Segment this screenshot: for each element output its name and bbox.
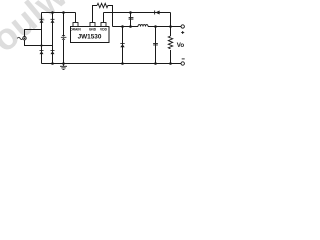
- output + terminal: [181, 25, 184, 28]
- AC terminal circle: [23, 37, 26, 40]
- node freewheel top: [121, 25, 124, 28]
- node TVS top: [62, 11, 65, 14]
- junction dots: [40, 11, 171, 65]
- node R3 top: [169, 25, 172, 28]
- diode D1 bridge upper-left: [40, 19, 44, 23]
- minus mark: [182, 58, 185, 60]
- capacitor C2: [129, 17, 134, 20]
- diode D4 bridge lower-right: [51, 50, 55, 54]
- wire output stub: [171, 26, 181, 28]
- wire bridge leg 1: [41, 13, 43, 64]
- wire C2 column: [130, 13, 132, 27]
- ground: [60, 64, 67, 70]
- wire DRAIN drop: [75, 13, 77, 23]
- diode D2 bridge upper-right: [51, 19, 55, 23]
- svg-text:Vo: Vo: [177, 42, 185, 49]
- node ground: [62, 62, 65, 65]
- node leg2 bottom: [51, 62, 54, 65]
- AC source squiggle: [17, 37, 23, 39]
- node C2 bottom: [129, 25, 132, 28]
- wire SW line: [113, 26, 139, 28]
- svg-text:GND: GND: [89, 28, 97, 32]
- pin 1 box DRAIN: [73, 23, 78, 27]
- wire R2 right lead: [108, 6, 113, 27]
- node freewheel bottom: [121, 62, 124, 65]
- svg-text:JW1530: JW1530: [78, 34, 102, 41]
- resistor R2 top: [97, 3, 108, 7]
- plus mark: [181, 31, 184, 34]
- resistor R3 load: [168, 36, 172, 49]
- wire VDD line: [104, 12, 171, 14]
- node R3 bottom: [169, 62, 172, 65]
- wire VDD pin drop: [103, 13, 105, 23]
- AC terminal center dot: [24, 37, 26, 39]
- output - terminal: [181, 62, 184, 65]
- wire AC line upper: [25, 30, 42, 37]
- svg-text:DRAIN: DRAIN: [70, 28, 81, 32]
- node leg2 top: [51, 11, 54, 14]
- TVS / spark gap symbol: [61, 35, 67, 40]
- pin 3 box VDD: [101, 23, 106, 27]
- svg-text:VDD: VDD: [100, 28, 108, 32]
- wire after inductor: [148, 26, 181, 28]
- diode D6 freewheel: [120, 43, 124, 47]
- node C3 top: [154, 25, 157, 28]
- inductor L1: [138, 25, 148, 27]
- wire C3 column: [155, 27, 157, 64]
- wire bottom rail: [42, 63, 182, 65]
- wire bridge leg 2: [52, 13, 54, 64]
- capacitor C3 output: [153, 43, 158, 45]
- wire AC line lower: [25, 40, 53, 46]
- diode D3 bridge lower-left: [40, 50, 44, 54]
- wire top rail: [42, 12, 76, 14]
- watermark: [0, 0, 109, 73]
- wire R3 column: [170, 27, 172, 64]
- diode D5 (VDD charge, cathode left): [154, 11, 159, 15]
- node C3 bottom: [154, 62, 157, 65]
- node C2 top: [129, 11, 132, 14]
- pin 2 box GND: [90, 23, 95, 27]
- wire freewheel column: [122, 27, 124, 64]
- node AC1 leg1: [40, 44, 42, 46]
- op IC body U1 JW1530: [71, 27, 110, 43]
- wire TVS column: [63, 13, 65, 64]
- wire GND pin to R2: [93, 6, 98, 23]
- wire VDD corner down: [170, 13, 172, 27]
